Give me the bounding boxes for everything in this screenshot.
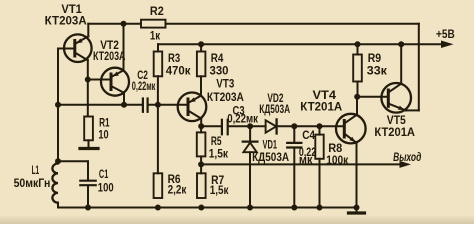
wire output line bbox=[201, 163, 399, 165]
transistor VT5 KT201A (NPN) bbox=[381, 83, 411, 113]
svg-text:50мкГн: 50мкГн bbox=[14, 178, 51, 190]
svg-text:КТ203А: КТ203А bbox=[93, 51, 126, 63]
svg-text:R3: R3 bbox=[168, 53, 180, 65]
resistor R3 470k bbox=[154, 52, 163, 77]
svg-text:2,2к: 2,2к bbox=[168, 184, 187, 196]
svg-text:1,5к: 1,5к bbox=[210, 185, 229, 197]
svg-text:R9: R9 bbox=[368, 53, 381, 65]
wire VT1 base lead bbox=[58, 48, 75, 50]
wire VT3 emitter lead (to R4) bbox=[200, 76, 202, 95]
node R4 top on +5V rail bbox=[198, 41, 204, 47]
node VT3 collector junction bbox=[198, 123, 204, 129]
wire VT2 collector lead bbox=[123, 93, 125, 105]
svg-text:L1: L1 bbox=[32, 165, 40, 177]
wire R5 bottom to R7 top vertical bbox=[200, 156, 202, 173]
resistor R5 1.5k bbox=[197, 132, 206, 156]
svg-text:R4: R4 bbox=[211, 53, 224, 65]
wire R9 top lead bbox=[357, 44, 359, 54]
svg-text:R2: R2 bbox=[150, 6, 164, 18]
node C4 tap on signal line bbox=[291, 123, 297, 129]
wire input line (C2 to VT3 base) bbox=[149, 104, 188, 106]
resistor R9 33k bbox=[353, 55, 362, 82]
node R5/R7 junction (output tap) bbox=[198, 161, 204, 167]
wire +5V rail bbox=[158, 43, 442, 45]
wire C4 bottom lead bbox=[293, 149, 295, 208]
node R8 bottom on rail bbox=[317, 205, 323, 211]
transistor VT2 KT203A (PNP) bbox=[101, 68, 129, 96]
wire R4 top lead bbox=[200, 44, 202, 51]
svg-text:C4: C4 bbox=[302, 130, 315, 142]
capacitor C3 0.22uF bbox=[221, 120, 223, 135]
node C4 bottom on rail bbox=[291, 205, 297, 211]
terminal +5V arrow bbox=[441, 41, 454, 49]
node R6 bottom on rail bbox=[155, 205, 161, 211]
diode VD2 KD503A bbox=[266, 120, 277, 132]
node VT1 collector - VT2 base bbox=[85, 77, 91, 83]
resistor R6 2.2k bbox=[154, 173, 163, 198]
wire top rail (R2 right to corner x419) bbox=[166, 23, 419, 25]
node VT2 collector on input line bbox=[121, 102, 127, 108]
svg-text:0,22мк: 0,22мк bbox=[227, 113, 258, 125]
wire VT4 emitter vertical to ground bbox=[356, 143, 358, 208]
wire VT1 collector / VT2 base vertical / R1 lead bbox=[87, 60, 89, 116]
wire L1-C1 link bbox=[58, 160, 88, 162]
wire C1 bottom lead bbox=[87, 186, 89, 207]
wire VT3 collector lead bbox=[200, 119, 202, 127]
svg-text:33к: 33к bbox=[367, 66, 387, 78]
wire R3 bottom to R6 top vertical bbox=[157, 76, 159, 173]
svg-text:VT3: VT3 bbox=[216, 79, 234, 91]
wire VD1 top lead bbox=[249, 126, 251, 140]
node R9/VT4 collector/VT5 base junction bbox=[354, 94, 360, 100]
node C2/R3/R6 junction bbox=[155, 102, 161, 108]
svg-text:470к: 470к bbox=[166, 66, 191, 78]
svg-text:КД503А: КД503А bbox=[252, 152, 289, 164]
svg-text:VT4: VT4 bbox=[313, 90, 337, 102]
svg-text:10: 10 bbox=[98, 129, 108, 141]
svg-text:R5: R5 bbox=[211, 136, 222, 148]
capacitor C2 0.22uF bbox=[142, 99, 144, 112]
svg-text:VD1: VD1 bbox=[263, 140, 278, 152]
resistor R7 1.5k bbox=[197, 173, 206, 198]
svg-text:VT2: VT2 bbox=[100, 40, 119, 52]
wire R8 bottom lead bbox=[319, 159, 321, 208]
svg-text:0,22мк: 0,22мк bbox=[132, 81, 156, 93]
svg-text:C1: C1 bbox=[99, 169, 109, 181]
wire R9 bottom lead bbox=[357, 82, 359, 97]
terminal output arrow bbox=[400, 161, 412, 168]
wire signal line (C3 to VD2) bbox=[229, 125, 266, 127]
node VD1 tap on signal line bbox=[247, 123, 253, 129]
svg-text:1,5к: 1,5к bbox=[209, 148, 229, 160]
ground (main, right) bbox=[356, 208, 358, 212]
svg-text:Выход: Выход bbox=[393, 152, 421, 164]
svg-text:R8: R8 bbox=[328, 143, 343, 155]
svg-text:330: 330 bbox=[210, 66, 229, 78]
wire VT5 base lead bbox=[357, 96, 388, 98]
node VT2 emitter on top rail bbox=[121, 21, 127, 27]
node input line / base vertical bbox=[55, 102, 61, 108]
node R9 top on +5V rail bbox=[355, 41, 361, 47]
node VD1 bottom on rail bbox=[247, 205, 253, 211]
wire top rail (emitters VT1/VT2 to R2) bbox=[88, 23, 141, 25]
wire R5 top lead bbox=[200, 126, 202, 132]
svg-text:R1: R1 bbox=[99, 118, 110, 130]
node C1 bottom on rail bbox=[85, 205, 91, 211]
wire bottom ground rail bbox=[58, 207, 356, 209]
wire right vertical (top rail down to VT5 emitter) bbox=[418, 24, 420, 111]
svg-text:100: 100 bbox=[98, 182, 114, 194]
transistor VT4 KT201A (NPN) bbox=[336, 114, 366, 144]
node L1/C1 top junction bbox=[55, 158, 61, 164]
svg-text:КТ201А: КТ201А bbox=[374, 127, 415, 139]
node VT5 collector on +5V rail bbox=[398, 41, 404, 47]
ground (R1 local) bbox=[88, 140, 90, 147]
resistor R1 10 bbox=[84, 117, 93, 141]
capacitor C1 100 bbox=[80, 180, 95, 182]
wire L1 top stub bbox=[57, 161, 59, 163]
wire R3 top lead bbox=[157, 44, 159, 51]
transistor VT3 KT203A (PNP) bbox=[178, 93, 207, 122]
resistor R8 100k bbox=[315, 135, 323, 159]
wire C4 top lead bbox=[293, 126, 295, 142]
node R8 tap on signal line bbox=[317, 123, 323, 129]
wire signal line (VT3 collector to C3) bbox=[201, 125, 221, 127]
svg-text:КД503А: КД503А bbox=[259, 104, 290, 116]
wire L1 bottom lead bbox=[57, 203, 59, 208]
svg-text:100к: 100к bbox=[326, 155, 348, 167]
inductor L1 50uH bbox=[52, 164, 58, 203]
wire signal line (VD2 to VT4 base) bbox=[277, 125, 344, 127]
wire VT5 collector lead bbox=[400, 44, 402, 83]
wire VD1 bottom lead bbox=[249, 152, 251, 207]
resistor R2 1k bbox=[141, 20, 166, 28]
svg-text:КТ203А: КТ203А bbox=[45, 15, 87, 27]
transistor VT1 KT203A (PNP) bbox=[64, 34, 92, 62]
wire VT1 base vertical bbox=[57, 49, 59, 162]
node R7 bottom on rail bbox=[198, 205, 204, 211]
wire VT2 base lead bbox=[88, 79, 111, 81]
wire VT2 emitter lead bbox=[123, 24, 125, 71]
capacitor C4 0.22uF bbox=[287, 142, 301, 144]
resistor R4 330 bbox=[197, 52, 206, 77]
wire VT4 collector lead bbox=[356, 97, 358, 115]
svg-text:VT5: VT5 bbox=[387, 115, 407, 127]
wire C1 top lead bbox=[87, 161, 89, 179]
wire R8 top lead bbox=[319, 126, 321, 134]
svg-text:КТ201А: КТ201А bbox=[300, 101, 342, 113]
wire VT5 emitter horizontal bbox=[406, 109, 419, 111]
diode VD1 KD503A bbox=[243, 140, 258, 142]
svg-text:1к: 1к bbox=[150, 31, 160, 43]
scan shadow at bottom edge bbox=[0, 0, 1, 1]
node rail end / VT4 emitter bbox=[354, 205, 360, 211]
svg-text:КТ203А: КТ203А bbox=[207, 92, 244, 104]
svg-text:+5В: +5В bbox=[436, 29, 455, 41]
wire input line (VT1 base bus to C2) bbox=[58, 104, 142, 106]
wire VT1 emitter lead bbox=[87, 24, 89, 37]
svg-text:мк: мк bbox=[299, 155, 313, 167]
